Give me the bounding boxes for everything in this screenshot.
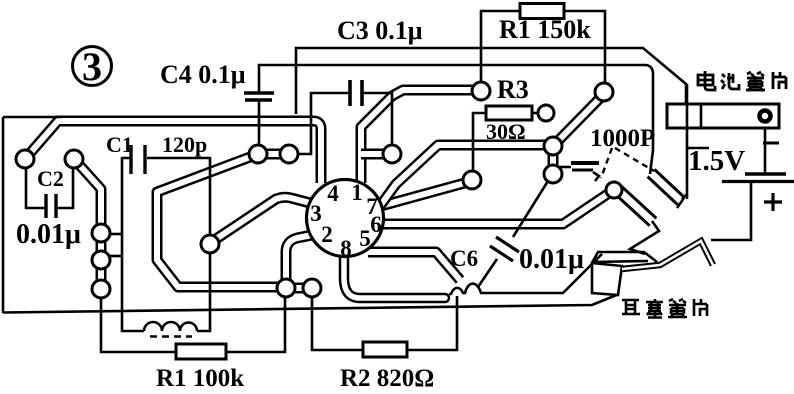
wire 1000P lead	[558, 166, 571, 169]
trace T16 pin8	[344, 252, 445, 298]
svg-text:6: 6	[370, 212, 382, 237]
pad P6	[249, 145, 267, 163]
resistor R2 box	[363, 342, 407, 357]
svg-text:2: 2	[321, 222, 333, 247]
pad P10	[303, 279, 321, 297]
wire R2 left lead	[312, 297, 363, 350]
earphone clip spring arm	[622, 241, 713, 269]
trace T11 pin6	[382, 191, 612, 224]
pad P14	[538, 105, 554, 121]
svg-text:0.01μ: 0.01μ	[519, 244, 584, 275]
trace T4 pad pair link	[258, 149, 289, 160]
trace T1 top-left long	[25, 121, 321, 183]
wire R1 100k right lead	[226, 297, 285, 352]
svg-text:R2 820Ω: R2 820Ω	[340, 365, 434, 392]
wire battery contact stub	[687, 147, 709, 150]
trace T12 pin5	[368, 252, 460, 280]
capacitor C3 plates	[350, 80, 362, 106]
dashed line 1000P left	[601, 148, 612, 178]
wire C3 left lead	[298, 93, 349, 154]
char er	[622, 300, 640, 314]
svg-text:1: 1	[351, 180, 363, 205]
wire R1 150k left lead	[481, 11, 520, 83]
svg-text:C6: C6	[450, 246, 478, 271]
svg-text:C1: C1	[106, 132, 133, 157]
svg-text:1000P: 1000P	[590, 125, 655, 152]
board frame top stub	[3, 116, 62, 119]
svg-text:R3: R3	[497, 75, 529, 104]
svg-text:3: 3	[310, 201, 322, 226]
svg-text:8: 8	[340, 236, 352, 261]
wire C1 right lead / coil right	[147, 158, 210, 331]
figure number circled 3	[73, 44, 112, 89]
trace T8 pin3	[210, 197, 314, 243]
svg-text:C2: C2	[37, 166, 64, 191]
svg-text:1.5V: 1.5V	[688, 145, 745, 177]
wire R1 100k left lead	[101, 298, 176, 352]
pad P13	[472, 82, 490, 100]
svg-text:30Ω: 30Ω	[486, 119, 526, 144]
pad P16	[544, 165, 562, 183]
trace T6 bottom pad link	[286, 283, 312, 294]
wire top net (to battery contact)	[296, 48, 686, 114]
resistor R1 150k box	[520, 4, 564, 19]
dashed line under coil	[150, 335, 192, 338]
board frame bottom edge	[3, 294, 619, 313]
battery plate minus	[745, 172, 786, 175]
IC pin numbers	[310, 180, 382, 261]
pad P17	[595, 83, 613, 101]
trace sleeve strip	[651, 173, 681, 201]
pad P1	[16, 150, 34, 168]
earphone clip	[592, 241, 713, 295]
resistor R3 box	[486, 106, 532, 120]
capacitor C6 plates	[490, 237, 519, 261]
wire R2 right lead	[407, 296, 457, 350]
wire R1 150k right lead	[564, 11, 605, 84]
svg-text:C3 0.1μ: C3 0.1μ	[337, 16, 423, 45]
CJK label battery spring (dian chi huang pian)	[698, 71, 786, 91]
wire second net (C4 top to right)	[259, 65, 653, 174]
dashed line 1000P right	[615, 148, 654, 171]
wire R3 right lead	[532, 112, 538, 115]
trace T5 big left loop	[157, 154, 286, 287]
plus sign	[764, 193, 782, 211]
trace T15	[380, 145, 545, 206]
sleeve end cap	[677, 198, 684, 208]
wire C4 bottom lead	[258, 101, 261, 150]
wire battery contact drop	[686, 84, 689, 199]
svg-text:5: 5	[359, 226, 371, 251]
trace T9 pin1 to R1 pad	[361, 90, 481, 183]
char pian2	[694, 299, 707, 316]
dashed lines	[601, 148, 654, 178]
pad P3	[92, 224, 110, 242]
pad P18	[606, 182, 622, 198]
IC U1 body	[307, 180, 384, 257]
char chi	[721, 73, 739, 89]
pad P8	[201, 235, 219, 253]
char sai	[646, 299, 663, 318]
wire R3 left lead	[473, 113, 486, 170]
wire pad stub	[108, 233, 122, 236]
CJK label earphone spring (er sai huang pian)	[622, 299, 707, 318]
svg-text:R1 150k: R1 150k	[499, 15, 591, 44]
capacitor 1000P plates	[571, 161, 599, 165]
wire earphone net	[449, 254, 602, 294]
pad P12	[463, 171, 481, 189]
trace T3 pad chain	[96, 233, 107, 290]
earphone clip front face	[592, 263, 622, 295]
pad P7	[280, 145, 298, 163]
wire 1000P hook	[593, 172, 599, 181]
trace strip1 (contact strip)	[617, 189, 653, 222]
wire C3 right lead	[362, 93, 392, 146]
wire battery plus drop	[711, 182, 751, 240]
svg-text:0.01μ: 0.01μ	[16, 219, 81, 250]
trace T14 pad link vertical	[548, 143, 559, 176]
inductor coil	[144, 322, 197, 331]
svg-text:3: 3	[82, 44, 102, 89]
char huang2	[668, 299, 687, 318]
wire C2 left lead	[26, 167, 45, 208]
pad P15	[544, 137, 562, 155]
wire clip join	[630, 221, 659, 254]
earphone clip top face	[592, 252, 657, 263]
pad P5	[92, 280, 110, 298]
trace T13 diag	[556, 95, 603, 143]
svg-text:120p: 120p	[162, 132, 207, 157]
trace T7 pin2	[286, 234, 317, 281]
trace T9 stub	[361, 149, 383, 160]
PADS LAYER	[16, 82, 622, 298]
capacitor C4 plates	[244, 93, 274, 100]
capacitor C2 plates	[46, 194, 56, 218]
pad P9	[277, 279, 295, 297]
char dian	[698, 71, 715, 90]
svg-text:C4 0.1μ: C4 0.1μ	[160, 60, 246, 89]
svg-text:R1 100k: R1 100k	[156, 365, 244, 392]
wire C2 right lead	[57, 167, 73, 208]
char huang	[746, 72, 765, 91]
minus sign	[763, 142, 779, 145]
earphone clip top face bottom edge	[592, 261, 648, 262]
TRACES LAYER (outlined pcb traces)	[25, 90, 687, 298]
wire C6 lower lead	[478, 259, 497, 287]
svg-text:4: 4	[327, 181, 339, 206]
wire pad stub	[108, 255, 122, 258]
sleeve tail	[682, 194, 687, 199]
battery plate plus	[722, 180, 794, 183]
capacitor C1 plates	[131, 145, 145, 174]
resistor R1 100k box	[176, 344, 226, 359]
wire C6 upper lead	[513, 181, 548, 237]
battery contact plate	[667, 104, 779, 128]
char pian	[773, 72, 786, 89]
board frame left edge	[2, 117, 5, 313]
pad P4	[92, 251, 110, 269]
pad P2	[65, 150, 83, 168]
pad P11	[383, 145, 401, 163]
trace T10 pin7	[381, 181, 472, 206]
wire contact ring to battery	[764, 124, 767, 174]
trace T2 pad2 to pad3	[74, 159, 101, 233]
wire C1 left lead / coil left	[122, 158, 144, 331]
